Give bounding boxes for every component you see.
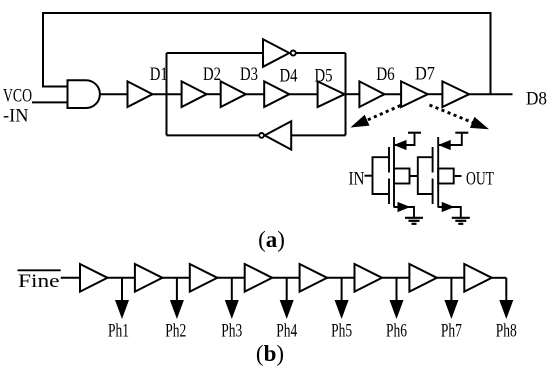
svg-text:Ph3: Ph3 [221,321,242,342]
tap arrow Ph5 [341,278,343,302]
buffer D8 [442,81,469,107]
buffer D2 [182,81,207,107]
wire VCO-IN input [32,101,68,103]
dashed arrow D7 input to cell [367,106,401,121]
wire AND output to D1 [100,93,127,95]
inverter stage 1 PMOS/NMOS drain box [394,169,410,184]
inverter bottom feedback [265,121,292,149]
wire D4 to D5 [289,93,317,95]
inverter stage 1 PMOS/NMOS NMOS gate bar [388,179,390,205]
AND gate U1 [68,80,100,108]
inverter stage 2 PMOS/NMOS drain box [438,169,454,184]
tap arrow Ph3 [231,278,233,302]
buffer B2 [135,264,163,292]
tap arrow Ph6 [396,278,398,302]
wire D3 to D4 [246,93,264,95]
svg-text:Fine: Fine [18,271,60,292]
svg-text:Ph7: Ph7 [441,321,462,342]
wire B8 output [492,277,507,279]
svg-text:D2: D2 [203,64,221,85]
tap arrow Ph4 [286,278,288,302]
wire B1 to B2 [108,277,135,279]
svg-text:(b): (b) [256,341,284,366]
inverter top feedback [263,39,289,67]
svg-text:Ph5: Ph5 [331,321,352,342]
svg-text:OUT: OUT [466,168,494,189]
buffer B1 [80,264,108,292]
wire D5 to D6 [345,93,360,95]
buffer B7 [409,264,437,292]
inverter stage 1 PMOS/NMOS PMOS source wire [394,133,415,145]
coarse-loop box right edge [345,53,347,135]
coarse-loop box top edge [167,52,264,54]
buffer B6 [355,264,383,292]
svg-text:Ph8: Ph8 [496,321,517,342]
inverter stage 2 PMOS/NMOS NMOS source arrow [442,203,453,212]
buffer B5 [300,264,328,292]
svg-text:IN: IN [349,168,365,189]
svg-text:D6: D6 [376,64,395,85]
inverter stage 1 PMOS/NMOS NMOS source arrow [398,203,409,212]
buffer D1 [128,81,153,107]
svg-text:(a): (a) [258,227,285,252]
wire B4 to B5 [272,277,299,279]
wire B7 to B8 [437,277,464,279]
inverter stage 2 PMOS/NMOS PMOS source wire [438,133,462,145]
buffer D3 [221,81,246,107]
svg-text:D1: D1 [150,64,168,85]
buffer D6 [359,81,384,107]
wire B6 to B7 [382,277,409,279]
tap arrow Ph8 [505,278,507,302]
svg-text:D4: D4 [280,66,298,87]
svg-text:Ph1: Ph1 [108,321,129,342]
inverter stage 2 PMOS/NMOS NMOS source wire [438,207,461,217]
buffer D5 [318,81,345,107]
coarse-loop box bottom edge [167,134,260,136]
svg-text:Ph2: Ph2 [165,321,186,342]
inverter stage 2 PMOS/NMOS NMOS gate bar [432,179,434,205]
dashed arrow D7 output to cell [430,105,473,123]
coarse-loop box left edge [166,53,168,135]
wire B2 to B3 [162,277,189,279]
inverter stage 1 PMOS/NMOS VDD rail [408,132,421,134]
inverter stage 2 PMOS/NMOS VDD rail [455,132,468,134]
wire feedback loop (D8 output to AND input) [43,13,491,94]
inverter stage 2 PMOS/NMOS channel [437,137,439,208]
inverter stage 1 PMOS/NMOS PMOS gate bar [388,147,390,173]
svg-text:-IN: -IN [3,106,29,127]
buffer D4 [264,81,289,107]
wire D8 output [469,93,512,95]
wire stage 2 to OUT [455,175,462,177]
wire B3 to B4 [217,277,244,279]
inverter stage 1 PMOS/NMOS channel [393,137,395,208]
inverter stage 1 PMOS/NMOS NMOS source wire [394,207,414,217]
buffer B4 [245,264,273,292]
svg-text:Ph6: Ph6 [386,321,407,342]
wire B5 to B6 [327,277,354,279]
inverter stage 2 PMOS/NMOS PMOS gate bar [432,147,434,173]
wire IN to stage 1 [365,175,373,177]
inverter stage 2 PMOS/NMOS gate bracket [418,157,433,194]
svg-text:D8: D8 [526,88,547,109]
buffer D7 [401,81,428,107]
wire D2 to D3 [207,93,221,95]
label Fine (overlined) [18,269,61,271]
svg-text:Ph4: Ph4 [276,321,297,342]
wire D6 to D7 [384,93,401,95]
svg-text:D5: D5 [315,66,333,87]
tap arrow Ph1 [121,278,123,302]
tap arrow Ph7 [450,278,452,302]
wire stage 1 to stage 2 [410,175,418,177]
wire Fine to buffer 1 [61,277,79,279]
wire D1 to D2 [153,93,182,95]
inverter stage 2 PMOS/NMOS PMOS source arrow [439,141,450,150]
svg-text:D3: D3 [240,64,258,85]
svg-text:VCO: VCO [3,85,32,106]
wire D7 to D8 buffer [428,93,443,95]
inverter stage 1 PMOS/NMOS PMOS source arrow [395,141,406,150]
inverter stage 1 PMOS/NMOS ground [405,217,423,219]
inverter stage 2 PMOS/NMOS ground [452,217,470,219]
svg-text:D7: D7 [415,64,435,85]
buffer B8 [464,264,492,292]
buffer B3 [190,264,218,292]
inverter stage 1 PMOS/NMOS gate bracket [373,157,390,194]
tap arrow Ph2 [176,278,178,302]
